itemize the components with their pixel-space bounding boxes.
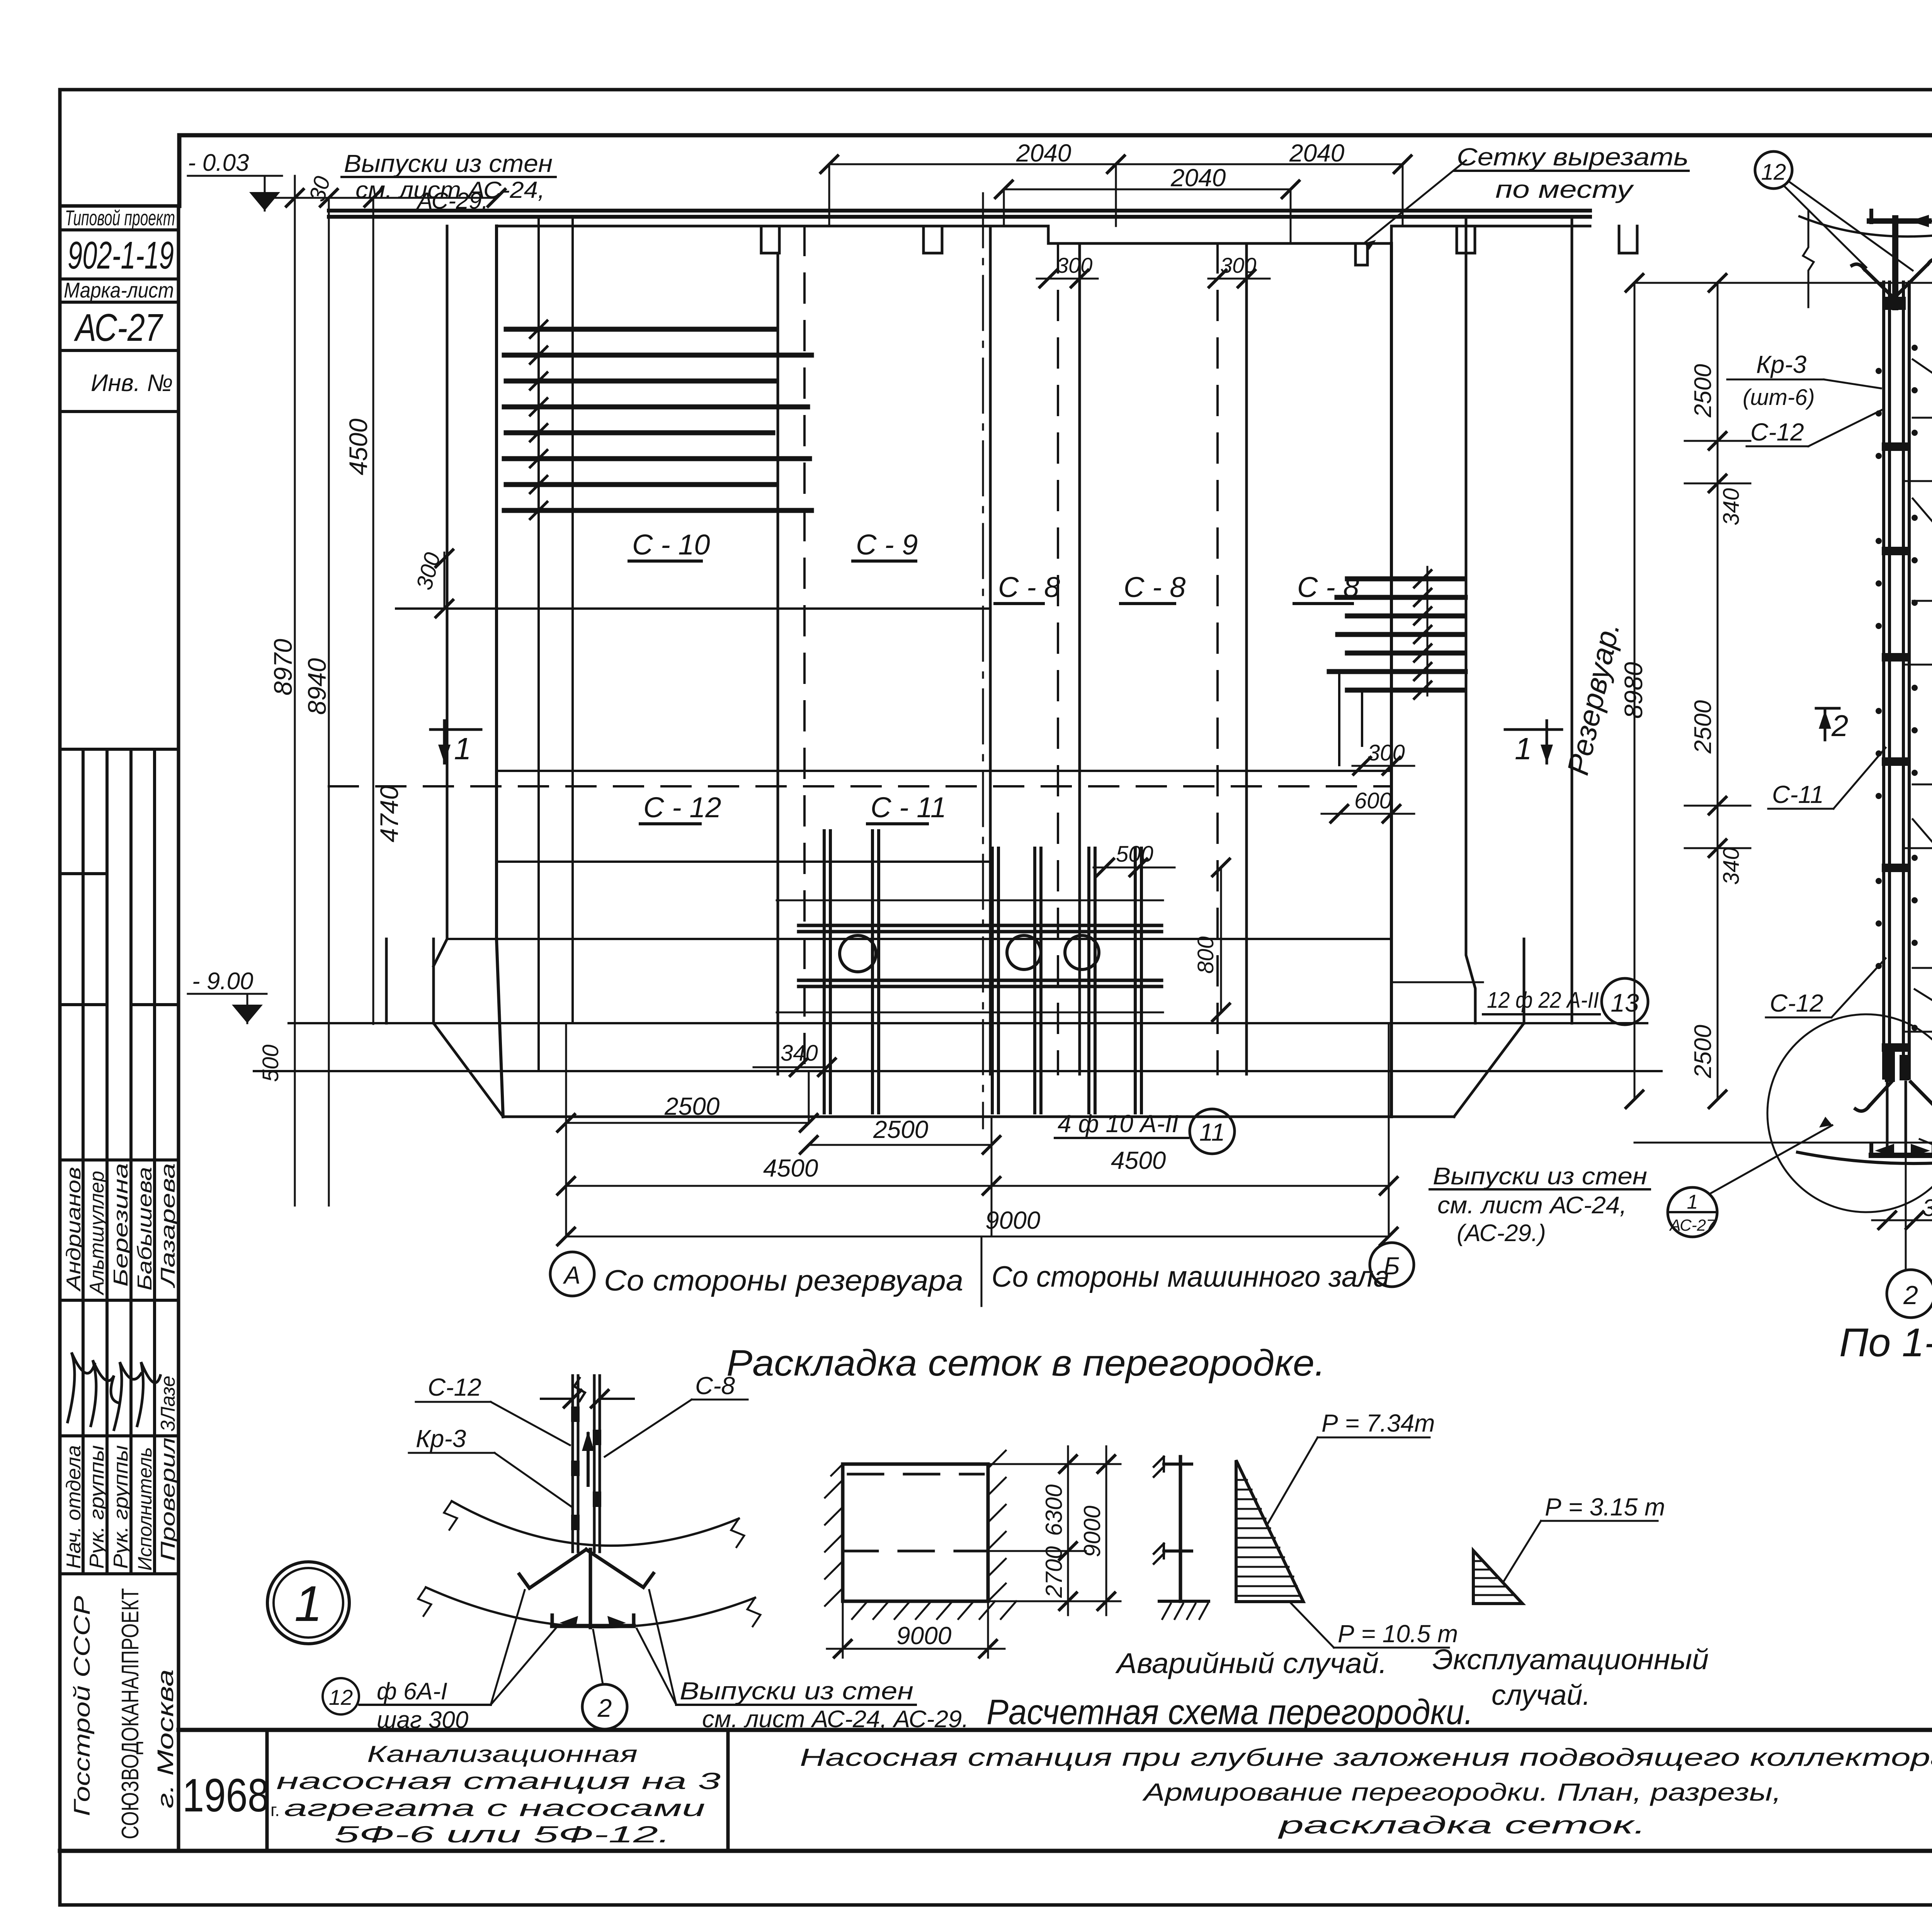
svg-text:11: 11 <box>1199 1118 1225 1146</box>
top slab double line <box>329 211 1590 217</box>
line to circle 2 <box>1905 1156 1907 1268</box>
svg-text:(шт-6): (шт-6) <box>1743 385 1815 410</box>
bottom dim verticals <box>566 1023 1389 1236</box>
svg-text:500: 500 <box>1116 842 1153 867</box>
wall right inner vertical <box>1390 243 1393 1117</box>
title block verticals <box>267 1730 1932 1851</box>
svg-text:- 9.00: - 9.00 <box>192 968 253 995</box>
level -0.03 line <box>188 176 282 211</box>
svg-text:Р = 3.15 т: Р = 3.15 т <box>1545 1493 1665 1521</box>
section 2 cut marks on 1-1 <box>1816 708 1839 740</box>
svg-text:С - 11: С - 11 <box>871 791 946 823</box>
dim verticals 6300/2700 and 9000 <box>988 1464 1121 1601</box>
svg-text:Проверил: Проверил <box>157 1437 179 1561</box>
top dim line to wall <box>265 197 497 199</box>
mesh boundary solid 2794 <box>1078 243 1081 1074</box>
sidebar row line 1 <box>60 228 179 231</box>
mesh cut hook at wall corner <box>1355 243 1367 265</box>
leader 12ф22А-II <box>1391 981 1483 983</box>
svg-text:Кр-3: Кр-3 <box>416 1425 466 1452</box>
detail circle around foot <box>1767 1014 1932 1212</box>
section 1-1 top hooks <box>1852 264 1895 299</box>
callout circle 13 <box>1602 978 1648 1025</box>
svg-text:Эксплуатационный: Эксплуатационный <box>1432 1643 1709 1675</box>
svg-text:С-8: С-8 <box>695 1372 735 1400</box>
section 1-1 bottom dim line <box>1634 1142 1932 1144</box>
svg-text:раскладка сеток.: раскладка сеток. <box>1277 1811 1646 1839</box>
leaders from 12 bottom <box>1920 1119 1932 1192</box>
svg-text:2500: 2500 <box>664 1092 720 1120</box>
svg-text:8970: 8970 <box>269 639 297 696</box>
load triangle 2 <box>1473 1551 1522 1604</box>
svg-text:300: 300 <box>1367 740 1405 765</box>
svg-text:см. лист АС-24,: см. лист АС-24, <box>1437 1192 1627 1219</box>
svg-text:4500: 4500 <box>1111 1146 1166 1174</box>
detail foot arrowheads <box>560 1616 626 1628</box>
leaders from Выпуски detail <box>637 1590 676 1705</box>
tank rectangle <box>843 1464 988 1601</box>
svg-text:340: 340 <box>1719 847 1744 885</box>
dim 300 small left <box>444 553 446 609</box>
sidebar roles row top <box>60 1434 179 1437</box>
leader Сетку вырезать <box>1364 160 1466 243</box>
line from foot to circle 2 <box>593 1630 603 1684</box>
dim vertical 8940 line <box>328 198 330 1206</box>
svg-text:2: 2 <box>1903 1281 1918 1310</box>
section mark 1 right <box>1505 721 1562 763</box>
svg-text:800: 800 <box>1193 936 1218 974</box>
rebar group B (7 bars) <box>1329 579 1465 690</box>
svg-text:шаг 300: шаг 300 <box>377 1707 468 1733</box>
dashed line below top <box>848 1473 983 1476</box>
T bar right arrow <box>1910 215 1929 227</box>
level -0.03 mark <box>249 192 280 211</box>
hatch ground under rectangle <box>852 1601 1016 1619</box>
sidebar names row top <box>60 1158 179 1162</box>
callout circle 1/АС-27 <box>1668 1187 1717 1237</box>
leader from 1/АС-27 <box>1709 1125 1832 1194</box>
svg-text:1968: 1968 <box>182 1769 269 1821</box>
hatch right wall <box>988 1451 1006 1601</box>
wall left inner vertical <box>497 226 503 1117</box>
leaders from ф 6А-I <box>491 1590 556 1705</box>
detail up arrow <box>587 1434 590 1485</box>
svg-text:4740: 4740 <box>375 786 403 842</box>
mesh boundary C9-C8 solid <box>989 226 992 1074</box>
interior horizontal dashed 2035 <box>329 785 1391 787</box>
interior horizontal line mid-left <box>396 607 990 610</box>
detail foot splay right <box>586 1549 653 1587</box>
svg-text:СОЮЗВОДОКАНАЛПРОЕКТ: СОЮЗВОДОКАНАЛПРОЕКТ <box>117 1588 144 1839</box>
svg-text:9000: 9000 <box>985 1206 1041 1234</box>
ground line <box>254 1070 1662 1072</box>
section 1-1 foot wall blobs <box>1885 1051 1895 1082</box>
sidebar row line 3 <box>60 301 179 304</box>
section 1-1 top T stem <box>1892 218 1898 307</box>
svg-text:902-1-19: 902-1-19 <box>68 234 174 277</box>
wall top blob <box>1885 297 1906 310</box>
svg-text:500: 500 <box>258 1044 283 1082</box>
sidebar signatures row top <box>60 1299 179 1302</box>
inner frame top line <box>179 133 1932 138</box>
rebar group A (8 bars) <box>504 329 811 510</box>
detail break at top <box>574 1378 585 1401</box>
foot T bar upturns <box>1871 1144 1932 1156</box>
svg-text:4500: 4500 <box>344 418 372 475</box>
svg-text:12: 12 <box>1761 160 1786 185</box>
right pier vertical far <box>1571 217 1573 1023</box>
svg-text:(АС-29.): (АС-29.) <box>1457 1220 1546 1247</box>
mesh vertical second <box>571 217 574 1023</box>
svg-text:С - 12: С - 12 <box>643 791 721 823</box>
detail foot T bar <box>552 1624 634 1628</box>
svg-text:340: 340 <box>1719 488 1744 526</box>
svg-text:Андрианов: Андрианов <box>63 1167 85 1292</box>
svg-text:г. Москва: г. Москва <box>153 1669 178 1808</box>
detail wall dark marks <box>571 1406 601 1530</box>
svg-text:С - 8: С - 8 <box>998 571 1060 603</box>
svg-text:Р = 7.34т: Р = 7.34т <box>1321 1409 1435 1437</box>
dim verticals from top dims <box>829 164 1403 243</box>
section 1-1 top T bar <box>1869 218 1929 224</box>
pipe assembly thin rails <box>777 900 1163 1012</box>
svg-text:Инв. №: Инв. № <box>91 370 173 396</box>
section 1-1 foot hooks <box>1855 1082 1891 1111</box>
section 1-1 foot verticals <box>1887 1082 1906 1155</box>
rebar group A arrow ticks <box>530 321 547 519</box>
svg-text:1: 1 <box>294 1575 322 1632</box>
svg-text:Армирование перегородки. План,: Армирование перегородки. План, разрезы, <box>1142 1778 1781 1806</box>
svg-text:300: 300 <box>1056 253 1092 277</box>
svg-text:Марка-лист: Марка-лист <box>64 278 174 302</box>
mesh boundary solid 3226 <box>1245 243 1248 1074</box>
svg-text:Рук. группы: Рук. группы <box>86 1445 108 1569</box>
svg-text:Рук. группы: Рук. группы <box>110 1445 132 1569</box>
column mid support <box>1164 1549 1192 1553</box>
slab notch 4 <box>1619 226 1637 253</box>
svg-text:8940: 8940 <box>303 658 331 715</box>
wall left outer vertical <box>434 226 447 966</box>
svg-text:С - 9: С - 9 <box>856 529 918 561</box>
break marks 1-1 top <box>1803 211 1814 307</box>
level -9.00 line <box>188 994 267 1023</box>
slab underside right level <box>1048 226 1391 243</box>
axis circle Б <box>1370 1243 1414 1287</box>
T bar left hook up <box>1869 211 1873 222</box>
svg-text:С - 8: С - 8 <box>1124 571 1185 603</box>
svg-text:С - 8: С - 8 <box>1297 571 1359 603</box>
svg-text:5Ф-6 или 5Ф-12.: 5Ф-6 или 5Ф-12. <box>334 1821 670 1847</box>
svg-text:6300: 6300 <box>1041 1485 1067 1536</box>
hatch left wall <box>825 1464 843 1606</box>
rebar group B hanger vertical <box>1427 567 1429 696</box>
svg-text:Выпуски из стен: Выпуски из стен <box>1433 1163 1647 1190</box>
sidebar gosstroy row top <box>60 1572 179 1575</box>
sidebar partial dividers <box>60 874 179 1005</box>
mesh boundary C10-C9 dashed <box>803 226 806 1074</box>
column top support <box>1164 1463 1192 1466</box>
svg-text:С-12: С-12 <box>1770 989 1823 1017</box>
svg-text:12: 12 <box>329 1685 353 1709</box>
wall right outer vertical with kink <box>1466 217 1475 1023</box>
mesh bottom line 2430 <box>447 938 1391 940</box>
svg-text:Альтшуллер: Альтшуллер <box>86 1171 108 1296</box>
svg-text:насосная станция на 3: насосная станция на 3 <box>276 1768 721 1794</box>
svg-text:Сетку вырезать: Сетку вырезать <box>1457 143 1689 171</box>
dashed midline <box>843 1550 988 1553</box>
mesh boundary dashed 3151 <box>1216 243 1219 1074</box>
sidebar signatures squiggles <box>68 1352 95 1422</box>
foot bottom curve <box>1798 1152 1932 1163</box>
pipe circle 1 <box>840 935 876 972</box>
pipe assembly horizontal double bars <box>799 925 1162 986</box>
sidebar column lines <box>83 749 155 1574</box>
svg-text:Выпуски из стен: Выпуски из стен <box>344 150 553 177</box>
svg-text:2: 2 <box>1831 709 1848 743</box>
callout circle 11 <box>1190 1109 1235 1154</box>
wall 1-1 mesh dots <box>1876 345 1918 1031</box>
wall 1-1 splice marks <box>1882 442 1911 1052</box>
dim col 8980 <box>1634 283 1636 1099</box>
svg-text:АС-27: АС-27 <box>74 306 163 349</box>
pipe circle 3 <box>1065 935 1099 969</box>
detail top tick lines <box>541 1398 634 1400</box>
svg-text:по месту: по месту <box>1495 175 1634 203</box>
svg-text:Выпуски из стен: Выпуски из стен <box>680 1677 913 1705</box>
svg-text:см. лист АС-24, АС-29.: см. лист АС-24, АС-29. <box>702 1706 969 1733</box>
title block bottom line <box>60 1849 1932 1853</box>
svg-text:Аварийный случай.: Аварийный случай. <box>1115 1647 1387 1679</box>
dim 800 assembly <box>1220 867 1222 1012</box>
sidebar outer box <box>60 206 179 1851</box>
left ticks rows <box>1685 441 1750 848</box>
svg-text:По 1-1: По 1-1 <box>1839 1320 1932 1365</box>
svg-text:4 ф 10 А-II: 4 ф 10 А-II <box>1058 1110 1179 1138</box>
detail foot splay left <box>519 1549 586 1588</box>
left pier slant <box>434 1023 503 1117</box>
svg-text:2040: 2040 <box>1016 139 1071 167</box>
svg-text:2040: 2040 <box>1289 139 1345 167</box>
svg-text:Березина: Березина <box>110 1163 132 1287</box>
svg-text:Расчетная схема перегородки.: Расчетная схема перегородки. <box>986 1692 1473 1732</box>
svg-text:8980: 8980 <box>1619 662 1648 719</box>
svg-text:С - 10: С - 10 <box>632 529 710 561</box>
dim line 2040 lower <box>1004 189 1291 190</box>
svg-text:Госстрой СССР: Госстрой СССР <box>70 1596 95 1816</box>
svg-text:- 0.03: - 0.03 <box>188 150 249 176</box>
mesh boundary dashed 2738 <box>1057 243 1059 1074</box>
svg-text:Со стороны машинного зала: Со стороны машинного зала <box>992 1260 1389 1293</box>
dim vertical 4500/4740 line <box>372 198 374 1024</box>
section axis dash-dot <box>982 193 984 1128</box>
svg-text:4500: 4500 <box>763 1154 818 1182</box>
column fixed base <box>1159 1600 1209 1603</box>
svg-text:С-12: С-12 <box>428 1373 481 1401</box>
left pier verticals <box>386 939 434 1023</box>
underline <box>342 176 556 178</box>
dim line 2040 upper <box>829 163 1403 165</box>
dim 9000 horizontal <box>843 1601 988 1658</box>
detail foot stem <box>589 1549 592 1628</box>
svg-text:Канализационная: Канализационная <box>367 1741 638 1767</box>
svg-text:2: 2 <box>597 1694 612 1722</box>
slab notch 1 <box>761 226 779 253</box>
section 1-1 top arc <box>1799 216 1932 236</box>
svg-text:ф 6А-I: ф 6А-I <box>377 1678 447 1705</box>
title block top line <box>179 1728 1932 1732</box>
svg-text:случай.: случай. <box>1492 1679 1590 1711</box>
svg-text:Со стороны резервуара: Со стороны резервуара <box>604 1264 963 1297</box>
svg-text:Лазарева: Лазарева <box>157 1163 179 1288</box>
right pier vertical <box>1523 939 1526 1023</box>
svg-text:Кр-3: Кр-3 <box>1756 350 1807 378</box>
svg-text:АС-27: АС-27 <box>1669 1216 1716 1234</box>
axis circle А <box>550 1252 594 1296</box>
slab underside left level <box>497 225 1048 228</box>
svg-text:С-12: С-12 <box>1750 418 1804 446</box>
svg-text:9000: 9000 <box>1079 1506 1105 1557</box>
svg-text:Нач. отдела: Нач. отдела <box>63 1445 85 1569</box>
detail arc upper <box>452 1501 739 1546</box>
svg-text:2040: 2040 <box>1170 164 1226 192</box>
sidebar row line 5 <box>60 410 179 413</box>
column schematic <box>1179 1457 1182 1601</box>
interior horizontal solid 1995 <box>497 770 1391 772</box>
callout circle 2 section 1-1 <box>1887 1270 1932 1318</box>
pipe circle 2 <box>1007 935 1041 969</box>
arc break marks <box>444 1501 744 1547</box>
svg-text:агрегата с насосами: агрегата с насосами <box>284 1795 705 1821</box>
svg-text:Исполнитель: Исполнитель <box>134 1447 156 1571</box>
mesh boundary C10-C9 solid <box>777 253 779 1074</box>
right dim rows 300/2040 <box>1905 418 1932 1032</box>
slab notch 3 <box>1457 226 1475 253</box>
sidebar row line 2 <box>60 277 179 281</box>
interior horizontal 2230 <box>497 861 990 863</box>
svg-text:2500: 2500 <box>873 1116 929 1143</box>
rebar group B arrow ticks <box>1414 570 1431 699</box>
pipe assembly vertical bar pairs <box>824 831 1141 1113</box>
svg-text:3Лазе: 3Лазе <box>157 1376 179 1432</box>
svg-text:9000: 9000 <box>896 1622 952 1650</box>
svg-text:2500: 2500 <box>1690 1025 1716 1078</box>
svg-text:12 ф 22 А-II: 12 ф 22 А-II <box>1487 988 1599 1013</box>
leaders from 12 <box>1784 182 1913 270</box>
detail wall slice verticals <box>573 1376 600 1552</box>
svg-text:АС-29.: АС-29. <box>416 188 488 214</box>
svg-text:А: А <box>563 1261 581 1289</box>
svg-text:Насосная станция при глубине з: Насосная станция при глубине заложения п… <box>800 1743 1932 1771</box>
detail arc lower <box>426 1587 755 1627</box>
detail circle 1 <box>267 1562 349 1644</box>
section 1-1 top dim line <box>1634 282 1932 284</box>
svg-text:1: 1 <box>454 731 471 766</box>
foundation top line <box>289 1022 1647 1024</box>
sidebar row line 4 <box>60 349 179 352</box>
load triangle 1 <box>1236 1460 1303 1602</box>
base slab bottom <box>503 1116 1454 1118</box>
svg-text:Раскладка сеток в перегородке.: Раскладка сеток в перегородке. <box>726 1342 1325 1384</box>
svg-text:300: 300 <box>1922 1195 1932 1221</box>
wall 1-1 verticals <box>1884 282 1909 1078</box>
section mark 1 left <box>430 721 481 763</box>
sidebar row line 6 <box>60 748 179 751</box>
dim vertical 8970 line <box>294 176 296 1206</box>
divider tick between captions <box>981 1236 983 1306</box>
slab underside right of wall <box>1391 226 1590 243</box>
callout circle 12 detail <box>323 1678 359 1714</box>
callout circle 2 detail <box>582 1684 627 1729</box>
svg-text:1: 1 <box>1687 1191 1698 1213</box>
dim col 2500/340 <box>1717 283 1719 1099</box>
svg-text:г.: г. <box>270 1800 280 1820</box>
group B left drop <box>1339 672 1362 765</box>
svg-text:600: 600 <box>1354 788 1392 813</box>
svg-text:С-11: С-11 <box>1772 781 1824 808</box>
svg-text:2500: 2500 <box>1690 700 1716 754</box>
callout circle 12 top <box>1755 151 1792 189</box>
svg-text:2500: 2500 <box>1690 364 1716 418</box>
svg-text:2700: 2700 <box>1041 1546 1067 1598</box>
inner frame left line <box>177 135 182 206</box>
slab notch 2 <box>923 226 942 253</box>
mesh bar vertical with arrows <box>537 217 540 1070</box>
svg-text:340: 340 <box>781 1041 818 1066</box>
svg-text:Бабышева: Бабышева <box>134 1167 156 1291</box>
svg-text:Типовой проект: Типовой проект <box>65 206 175 230</box>
section 1-1 foot T bar <box>1871 1153 1932 1158</box>
right pier slant <box>1454 1023 1524 1117</box>
svg-text:1: 1 <box>1515 731 1532 766</box>
foot arrowheads <box>1875 1144 1930 1157</box>
